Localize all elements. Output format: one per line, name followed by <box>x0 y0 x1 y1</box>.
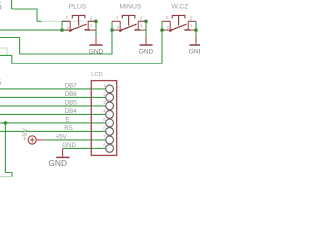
svg-text:GND: GND <box>89 49 104 56</box>
wire W.CZ left net W2 main run <box>0 55 12 63</box>
svg-text:DB4: DB4 <box>65 108 78 115</box>
ground GND under MINUS <box>139 36 154 56</box>
switch S2 MINUS <box>112 4 146 32</box>
wire DB6 row <box>0 96 106 98</box>
ground GND under W.CZ <box>189 36 204 56</box>
svg-text:+5V: +5V <box>22 128 29 141</box>
wire DB4 row <box>0 113 106 115</box>
wire W0 vertical x=37 <box>36 9 38 22</box>
svg-text:DB5: DB5 <box>65 99 78 106</box>
svg-text:2: 2 <box>140 15 143 20</box>
svg-text:2: 2 <box>190 15 193 20</box>
svg-text:GND: GND <box>48 158 67 168</box>
wire DB7 row <box>0 88 106 90</box>
ground GND under PLUS <box>89 36 104 56</box>
wire W0 horizontal y=9 <box>12 8 37 10</box>
connector pin 4 <box>103 109 113 119</box>
connector pin 8 <box>103 143 113 153</box>
wire DB5 row <box>0 105 106 107</box>
svg-text:GND: GND <box>189 49 200 56</box>
junction dot MINUS left (112,30.1) <box>110 28 114 32</box>
wire vertical x=62 junction up to pin4 row <box>61 21 63 30</box>
svg-text:+5V: +5V <box>56 133 68 140</box>
wire W0 horizontal y=21.3 toward PLUS pin2 <box>37 20 42 22</box>
svg-text:1: 1 <box>140 23 143 28</box>
wire PLUS right to GND <box>95 21 97 36</box>
svg-text:3: 3 <box>166 25 169 30</box>
wire E branch vertical x=5.4 down and jog <box>5 123 12 177</box>
switch S1 PLUS <box>62 4 96 32</box>
svg-text:W.CZ: W.CZ <box>172 4 189 11</box>
connector pin 6 <box>103 126 113 136</box>
wire E row <box>0 122 106 124</box>
connector pin 1 <box>103 83 113 93</box>
svg-text:MINUS: MINUS <box>120 4 142 11</box>
svg-text:GND: GND <box>62 142 76 149</box>
svg-text:DB6: DB6 <box>65 91 78 98</box>
svg-text:1: 1 <box>90 23 93 28</box>
junction dot W.CZ left (162,30.1) <box>160 28 164 32</box>
junction dot PLUS left (62,30.1) <box>60 28 64 32</box>
svg-text:4: 4 <box>115 15 118 20</box>
junction dot W.CZ right (196,30.1) <box>194 28 198 32</box>
wire MINUS left net W1 from left edge <box>0 21 112 54</box>
svg-text:DB7: DB7 <box>65 82 78 89</box>
wire E branch faint exit left <box>0 176 12 178</box>
connector pin 2 <box>103 92 113 102</box>
svg-text:4: 4 <box>165 15 168 20</box>
wire GND row <box>63 147 106 149</box>
connector pin 7 <box>103 134 113 144</box>
junction dot E row branch (5.4,122.9) <box>4 121 8 125</box>
svg-text:2: 2 <box>90 15 93 20</box>
wire W.CZ left net W2 faint upper jog <box>0 48 7 55</box>
svg-text:RS: RS <box>64 125 73 132</box>
svg-text:GND: GND <box>139 49 154 56</box>
connector LCD box <box>91 81 116 156</box>
svg-text:1: 1 <box>190 23 193 28</box>
wire +5V row <box>45 139 106 141</box>
wire W0 vertical from top edge <box>11 0 13 9</box>
wire MINUS right to GND <box>145 21 147 36</box>
connector pin 3 <box>103 100 113 110</box>
svg-text:PLUS: PLUS <box>69 4 87 11</box>
svg-text:4: 4 <box>65 15 68 20</box>
ground GND at row 8 left end <box>48 148 69 167</box>
svg-text:3: 3 <box>66 25 69 30</box>
junction dot PLUS right (96,21.3) <box>94 20 98 24</box>
supply +5V symbol <box>22 128 45 144</box>
connector pin 5 <box>103 117 113 127</box>
wire W.CZ right to GND <box>195 21 197 36</box>
junction dot MINUS right (146,21.3) <box>144 20 148 24</box>
switch S3 W.CZ <box>162 4 196 32</box>
svg-text:3: 3 <box>116 25 119 30</box>
svg-text:E: E <box>65 116 69 123</box>
wire RS row <box>0 130 106 132</box>
wire PLUS left net y=30.1 from left edge <box>0 29 70 31</box>
svg-text:LCD: LCD <box>91 72 103 78</box>
